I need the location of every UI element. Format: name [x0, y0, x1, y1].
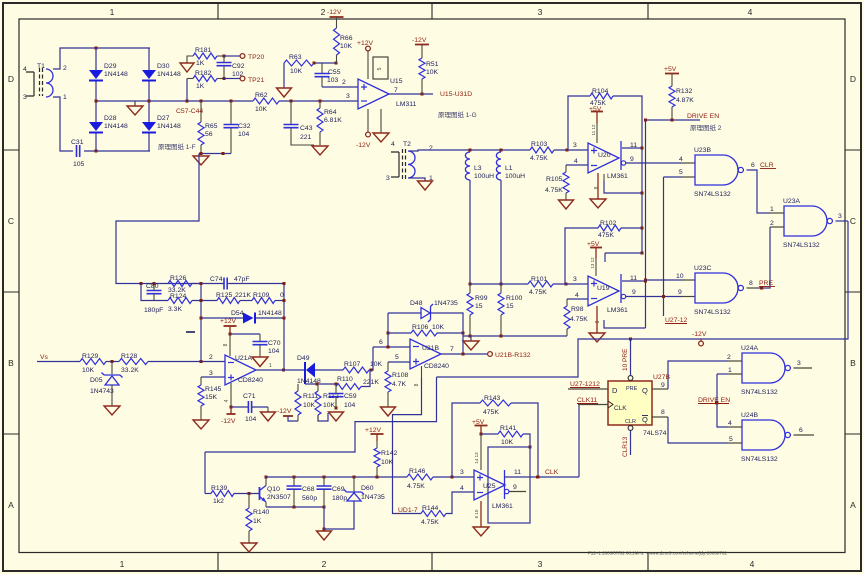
svg-text:4.87K: 4.87K — [676, 97, 694, 104]
power -12V — [330, 16, 344, 18]
junction — [229, 333, 232, 336]
flip-flop U27B (74LS74) — [608, 381, 652, 425]
wire — [367, 109, 369, 132]
resistor R129 — [80, 359, 106, 365]
NAND gate U24A — [742, 353, 785, 383]
svg-text:4: 4 — [574, 158, 578, 165]
diode D48 — [421, 308, 430, 319]
svg-text:U21A: U21A — [235, 355, 252, 362]
junction — [462, 353, 465, 356]
wire — [148, 361, 225, 363]
junction — [223, 77, 226, 80]
wire PRE stub — [747, 287, 759, 289]
svg-text:U15: U15 — [390, 78, 403, 85]
svg-text:U23A: U23A — [783, 198, 800, 205]
junction — [566, 149, 569, 152]
wire — [437, 221, 849, 377]
svg-text:CLK: CLK — [614, 405, 627, 412]
svg-text:4.75K: 4.75K — [421, 519, 439, 526]
svg-text:10K: 10K — [303, 402, 316, 409]
svg-text:SN74LS132: SN74LS132 — [741, 456, 778, 463]
wire — [192, 300, 217, 302]
resistor R104 — [590, 93, 613, 99]
svg-text:2: 2 — [322, 559, 327, 569]
svg-text:4: 4 — [750, 559, 755, 569]
wire — [230, 383, 232, 407]
wire — [187, 100, 253, 102]
svg-text:15: 15 — [506, 303, 514, 310]
wire pin10 U23C — [682, 279, 695, 281]
wire Qbar stub — [652, 416, 668, 418]
wire — [671, 107, 673, 120]
svg-text:104: 104 — [245, 416, 257, 423]
svg-text:Q10: Q10 — [267, 486, 280, 493]
svg-text:4.75K: 4.75K — [570, 316, 588, 323]
test point TP20 — [240, 54, 245, 59]
wire — [205, 493, 211, 495]
svg-text:原理图纸 2: 原理图纸 2 — [690, 123, 722, 132]
wire — [565, 165, 567, 172]
NAND gate U24B — [742, 420, 785, 450]
svg-text:10K: 10K — [340, 43, 353, 50]
inductor L1 — [496, 152, 501, 180]
wire — [148, 81, 150, 122]
wire — [201, 376, 225, 378]
output bubble U20 — [621, 161, 625, 165]
wire — [626, 162, 682, 164]
svg-text:R141: R141 — [500, 425, 516, 432]
svg-text:R51: R51 — [426, 61, 439, 68]
wire — [622, 280, 646, 282]
svg-text:8: 8 — [223, 343, 229, 346]
wire — [400, 513, 421, 515]
svg-text:1K: 1K — [196, 60, 205, 67]
junction — [282, 369, 285, 372]
junction — [469, 335, 472, 338]
svg-text:C68: C68 — [302, 486, 315, 493]
wire — [116, 154, 199, 284]
wire — [595, 248, 597, 259]
svg-text:4.75K: 4.75K — [529, 289, 547, 296]
svg-text:LM361: LM361 — [492, 503, 513, 510]
ground — [317, 531, 332, 540]
ground — [127, 106, 143, 115]
svg-text:D60: D60 — [361, 485, 374, 492]
svg-text:3: 3 — [797, 360, 801, 367]
wire — [224, 78, 240, 80]
balance box U15 — [373, 57, 388, 79]
svg-text:5: 5 — [679, 169, 683, 176]
svg-text:1: 1 — [269, 363, 272, 369]
wire — [95, 133, 97, 151]
junction — [200, 317, 203, 320]
power +5V — [590, 247, 602, 249]
capacitor C55 — [315, 74, 330, 77]
resistor R107 — [343, 367, 369, 373]
svg-text:T1: T1 — [37, 63, 45, 70]
wire — [336, 17, 338, 28]
resistor R101 — [528, 281, 553, 287]
junction — [629, 338, 632, 341]
svg-text:+12V: +12V — [357, 40, 374, 47]
resistor R103 — [530, 147, 554, 153]
wire — [604, 320, 646, 328]
svg-text:U24B: U24B — [741, 412, 758, 419]
svg-text:Q: Q — [642, 386, 648, 395]
wire — [293, 477, 295, 486]
resistor R144 — [421, 511, 446, 517]
svg-text:2: 2 — [727, 354, 731, 361]
resistor R110 — [336, 384, 361, 390]
wire pin4 U23B — [682, 162, 695, 164]
resistor R128 — [119, 359, 148, 365]
NAND gate U23C — [695, 273, 738, 303]
resistor R98 — [564, 306, 570, 329]
resistor R64 — [317, 108, 323, 132]
wire — [353, 477, 355, 492]
junction — [140, 282, 143, 285]
wire — [758, 227, 770, 288]
ground — [193, 420, 209, 429]
svg-text:4: 4 — [575, 292, 579, 299]
wire — [409, 150, 530, 151]
capacitor C69 — [317, 486, 332, 489]
capacitor C32 — [224, 125, 239, 128]
svg-text:2: 2 — [342, 79, 346, 86]
resistor R132 — [669, 86, 675, 107]
svg-text:+12V: +12V — [220, 318, 237, 325]
svg-text:2: 2 — [63, 65, 67, 72]
svg-text:C74: C74 — [210, 276, 223, 283]
wire — [201, 317, 243, 319]
svg-text:SN74LS132: SN74LS132 — [783, 242, 820, 249]
resistor R124 — [168, 298, 192, 304]
svg-text:56: 56 — [205, 131, 213, 138]
wire — [111, 385, 113, 406]
wire — [480, 426, 482, 435]
junction — [335, 62, 338, 65]
diode D54 — [243, 313, 254, 324]
power +12V — [224, 325, 237, 327]
wire output U24B — [794, 434, 815, 436]
svg-text:9: 9 — [513, 484, 517, 491]
wire pin5 U24B — [728, 442, 742, 444]
wire — [153, 294, 155, 301]
wire — [437, 332, 463, 334]
wire — [234, 493, 260, 495]
svg-text:C69: C69 — [332, 486, 345, 493]
wire — [84, 150, 150, 152]
svg-text:3.3K: 3.3K — [168, 306, 182, 313]
svg-text:D27: D27 — [157, 115, 170, 122]
stray minus mark — [186, 331, 195, 333]
test point TP21 — [240, 76, 245, 81]
svg-text:100uH: 100uH — [505, 173, 525, 180]
wire — [231, 406, 248, 408]
wire — [567, 298, 588, 300]
output bar U19 — [620, 274, 622, 303]
svg-text:221K: 221K — [235, 292, 251, 299]
svg-text:R65: R65 — [205, 123, 218, 130]
resistor R146 — [407, 474, 433, 480]
svg-text:SN74LS132: SN74LS132 — [694, 309, 731, 316]
svg-text:LM311: LM311 — [396, 101, 416, 108]
wire — [469, 284, 471, 293]
diode D05 — [105, 376, 119, 385]
svg-text:C59: C59 — [344, 393, 357, 400]
wire — [388, 361, 410, 363]
junction mark — [760, 286, 763, 289]
svg-text:9: 9 — [632, 289, 636, 296]
op-amp U21B — [410, 339, 441, 369]
svg-text:15K: 15K — [205, 394, 218, 401]
ground — [277, 88, 292, 97]
wire — [369, 347, 373, 370]
wire — [240, 300, 252, 302]
wire — [500, 315, 502, 336]
op-amp U25 — [474, 470, 505, 500]
svg-text:R145: R145 — [205, 386, 221, 393]
wire — [291, 128, 314, 145]
junction — [186, 100, 189, 103]
junction — [283, 317, 286, 320]
power -12V — [283, 415, 293, 417]
junction — [644, 119, 647, 122]
svg-text:U23C: U23C — [694, 265, 711, 272]
junction — [641, 192, 644, 195]
svg-text:475K: 475K — [483, 409, 499, 416]
svg-text:SN74LS132: SN74LS132 — [741, 389, 778, 396]
wire — [317, 384, 319, 391]
svg-text:R64: R64 — [324, 109, 337, 116]
wire — [421, 45, 423, 59]
junction — [500, 335, 503, 338]
wire — [565, 228, 598, 284]
wire — [452, 403, 480, 477]
svg-text:3: 3 — [538, 559, 543, 569]
wire — [836, 220, 849, 222]
svg-text:2: 2 — [321, 7, 326, 17]
svg-text:4: 4 — [224, 399, 230, 402]
svg-text:U25: U25 — [483, 483, 496, 490]
ground — [312, 146, 328, 155]
svg-text:105: 105 — [73, 161, 85, 168]
svg-text:D05: D05 — [90, 377, 103, 384]
wire — [288, 416, 298, 421]
capacitor C31 — [77, 145, 80, 157]
capacitor C92 — [217, 63, 232, 66]
svg-text:R109: R109 — [253, 292, 269, 299]
power -12V — [415, 44, 429, 46]
wire — [603, 174, 605, 181]
svg-text:1N4148: 1N4148 — [258, 310, 282, 317]
svg-text:CLR13: CLR13 — [622, 436, 629, 457]
power +5V — [665, 73, 679, 75]
svg-text:100uH: 100uH — [474, 173, 494, 180]
junction — [387, 346, 390, 349]
junction — [200, 360, 203, 363]
resistor R63 — [284, 60, 314, 66]
svg-text:104: 104 — [238, 131, 250, 138]
wire — [259, 345, 261, 357]
ground — [559, 200, 574, 209]
svg-text:560p: 560p — [302, 495, 317, 502]
wire — [204, 452, 206, 494]
wire — [376, 434, 378, 441]
transistor Q10 — [259, 487, 261, 500]
svg-text:A: A — [850, 500, 856, 510]
wire pin9 U23C — [682, 296, 695, 298]
right bus U21A block — [283, 284, 285, 371]
svg-text:+5V: +5V — [587, 241, 600, 248]
junction — [95, 150, 98, 153]
svg-text:3: 3 — [209, 370, 213, 377]
wire — [201, 283, 224, 285]
svg-text:R99: R99 — [475, 295, 488, 302]
wire — [259, 334, 261, 342]
svg-text:3: 3 — [346, 93, 350, 100]
wire — [553, 283, 588, 285]
svg-text:4: 4 — [728, 420, 732, 427]
resistor R99 — [467, 293, 473, 315]
svg-text:5: 5 — [377, 67, 383, 70]
svg-text:-12V: -12V — [412, 37, 427, 44]
wire — [663, 177, 665, 316]
svg-text:R144: R144 — [422, 505, 438, 512]
power +12V — [366, 46, 371, 51]
svg-text:R139: R139 — [211, 485, 227, 492]
ground — [261, 412, 276, 421]
svg-text:U21B: U21B — [422, 345, 439, 352]
wire — [141, 284, 168, 301]
svg-text:R129: R129 — [82, 353, 98, 360]
junction mark — [715, 401, 718, 404]
svg-text:R108: R108 — [392, 372, 408, 379]
wire — [463, 335, 567, 337]
svg-text:9: 9 — [630, 156, 634, 163]
svg-text:R103: R103 — [531, 141, 547, 148]
wire — [668, 417, 728, 443]
svg-text:R132: R132 — [676, 88, 692, 95]
svg-text:B: B — [850, 358, 856, 368]
wire — [373, 346, 410, 348]
junction — [323, 528, 326, 531]
svg-text:1N4148: 1N4148 — [104, 123, 128, 130]
svg-text:221K: 221K — [363, 379, 379, 386]
resistor R100 — [498, 293, 504, 315]
wire — [500, 284, 502, 293]
svg-text:D49: D49 — [297, 355, 310, 362]
svg-text:1: 1 — [770, 206, 774, 213]
diode D29 — [89, 70, 103, 79]
junction — [529, 446, 532, 449]
wire — [148, 48, 150, 70]
svg-text:8: 8 — [749, 280, 753, 287]
svg-text:+5V: +5V — [589, 106, 602, 113]
wire — [717, 374, 728, 427]
wire — [511, 403, 538, 477]
svg-text:8: 8 — [414, 383, 420, 386]
wire — [290, 101, 292, 125]
wire — [388, 332, 411, 334]
wire — [431, 313, 463, 354]
wire — [279, 100, 358, 102]
svg-text:4.7K: 4.7K — [392, 381, 406, 388]
svg-text:8: 8 — [661, 409, 665, 416]
wire — [645, 120, 647, 328]
wire — [668, 361, 728, 389]
svg-text:R125: R125 — [216, 292, 232, 299]
wire — [388, 312, 421, 314]
svg-text:R146: R146 — [409, 468, 425, 475]
svg-text:R128: R128 — [121, 353, 137, 360]
svg-text:3: 3 — [573, 142, 577, 149]
junction — [95, 47, 98, 50]
junction — [283, 299, 286, 302]
wire — [433, 476, 474, 478]
wire — [224, 55, 240, 57]
svg-text:10K: 10K — [501, 439, 514, 446]
wire — [323, 477, 325, 486]
svg-text:1k2: 1k2 — [213, 498, 224, 505]
svg-text:8: 8 — [595, 320, 601, 323]
junction — [469, 283, 472, 286]
wire pin2 U24A — [728, 360, 742, 362]
wire — [248, 531, 250, 543]
junction — [353, 476, 356, 479]
wire — [630, 339, 632, 376]
svg-text:R124: R124 — [170, 293, 186, 300]
svg-text:4.75K: 4.75K — [530, 155, 548, 162]
wire — [230, 128, 232, 154]
junction — [335, 383, 338, 386]
wire — [95, 81, 97, 122]
junction — [148, 100, 151, 103]
svg-text:D: D — [8, 74, 14, 84]
junction — [387, 332, 390, 335]
wire — [387, 313, 389, 347]
diode D27 — [142, 122, 156, 131]
svg-text:180pF: 180pF — [144, 307, 163, 314]
svg-text:475K: 475K — [598, 232, 614, 239]
svg-text:D: D — [850, 74, 856, 84]
svg-text:4: 4 — [460, 485, 464, 492]
svg-text:103: 103 — [327, 77, 339, 84]
power +5V — [591, 111, 603, 113]
svg-text:180p: 180p — [332, 495, 347, 502]
svg-text:PRE: PRE — [759, 280, 773, 287]
svg-text:1N4148: 1N4148 — [157, 123, 181, 130]
wire — [230, 333, 260, 335]
wire — [605, 252, 642, 254]
svg-text:LM361: LM361 — [607, 173, 628, 180]
ground — [473, 527, 489, 536]
svg-text:4.75K: 4.75K — [545, 187, 563, 194]
wire — [566, 299, 568, 306]
svg-text:-12V: -12V — [277, 408, 292, 415]
svg-text:SN74LS132: SN74LS132 — [694, 191, 731, 198]
ground — [193, 156, 209, 165]
svg-text:+5V: +5V — [472, 419, 485, 426]
svg-text:R126: R126 — [170, 275, 186, 282]
junction — [641, 147, 644, 150]
junction — [313, 62, 316, 65]
svg-text:10 PRE: 10 PRE — [622, 348, 629, 371]
diode D30 — [142, 70, 156, 79]
capacitor C43 — [284, 125, 299, 128]
op-amp U15 — [358, 79, 389, 109]
diode D49 — [304, 362, 306, 384]
